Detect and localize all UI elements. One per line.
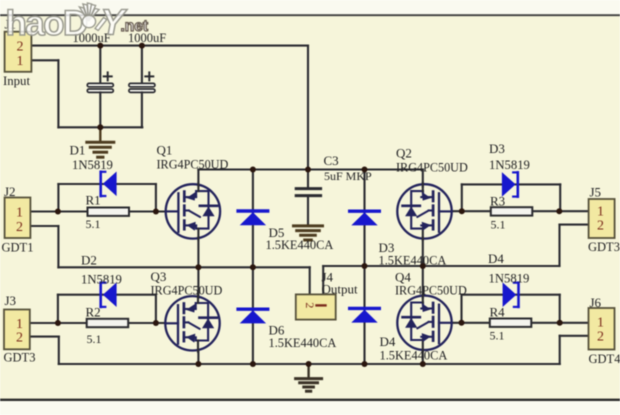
- diode D3 1N5819: [516, 172, 519, 196]
- junction D3-D4 TVS / right midpoint rail: [362, 263, 368, 269]
- junction Q4 emitter / ground rail: [420, 361, 426, 367]
- connector J3: [4, 310, 30, 350]
- svg-text:Q3: Q3: [151, 269, 167, 284]
- wire J2 pin 2 drop: [30, 225, 58, 227]
- ground (capacitor rail): [99, 127, 101, 141]
- junction J3 pin1 / D2 branch: [55, 320, 61, 326]
- svg-text:J5: J5: [590, 185, 602, 200]
- junction Q4 gate / D4 branch: [459, 320, 465, 326]
- svg-text:IRG4PC50UD: IRG4PC50UD: [157, 157, 229, 171]
- diode D6 1.5KE440CA: [238, 308, 268, 311]
- svg-text:1.5KE440CA: 1.5KE440CA: [379, 254, 447, 268]
- wire C3 stem: [307, 170, 309, 188]
- connector J6: [589, 308, 615, 350]
- wire Q2 collector: [422, 170, 424, 187]
- diode D5 1.5KE440CA: [238, 209, 268, 212]
- junction D4 TVS / ground rail: [362, 361, 368, 367]
- svg-text:GDT3: GDT3: [4, 350, 36, 364]
- svg-text:D1: D1: [70, 143, 86, 158]
- diode D4 TVS 1.5KE440CA: [350, 307, 380, 310]
- svg-text:1: 1: [17, 54, 24, 69]
- svg-text:2: 2: [303, 302, 317, 308]
- wire Q4 emitter: [422, 350, 424, 365]
- wire right midpoint rail: [323, 265, 559, 267]
- wire J6 pin 2 riser: [559, 336, 561, 364]
- junction D5 / collector rail: [250, 167, 256, 173]
- wire Q1 emitter / Q3 collector column: [197, 238, 199, 298]
- svg-text:1N5819: 1N5819: [489, 158, 530, 172]
- connector J5: [589, 199, 615, 238]
- svg-text:GDT4: GDT4: [589, 352, 620, 366]
- diode D4 1N5819: [517, 283, 520, 307]
- capacitor C1 1000uF: [99, 46, 101, 84]
- svg-text:GDT1: GDT1: [2, 240, 34, 254]
- svg-text:J3: J3: [5, 293, 17, 308]
- svg-text:IRG4PC50UD: IRG4PC50UD: [396, 160, 468, 174]
- junction R1 / D1 branch / Q1 gate: [153, 209, 159, 215]
- wire J4 left stub: [309, 267, 311, 294]
- svg-text:D4: D4: [488, 251, 504, 266]
- resistor R4: [490, 319, 532, 327]
- svg-text:1N5819: 1N5819: [489, 272, 530, 286]
- wire capacitor bottom rail: [58, 126, 142, 128]
- svg-text:R2: R2: [86, 304, 101, 319]
- junction J2 pin1 / D1 branch: [55, 209, 61, 215]
- wire bottom ground rail: [59, 363, 560, 365]
- diode D3 TVS 1.5KE440CA: [350, 209, 380, 212]
- capacitor C2 1000uF: [141, 46, 143, 84]
- svg-text:D3: D3: [489, 141, 505, 156]
- junction R4 / D4 branch / J6 pin1: [557, 320, 563, 326]
- svg-text:2: 2: [16, 220, 23, 235]
- wire Q2 gate to J5 pin 1: [452, 210, 589, 212]
- wire D5/D6 column: [252, 170, 254, 365]
- svg-text:1: 1: [597, 204, 604, 219]
- svg-text:C3: C3: [324, 153, 339, 168]
- svg-text:2: 2: [597, 218, 604, 233]
- transistor Q3 IRG4PC50UD: [165, 296, 219, 350]
- wire Q1 gate from J2 pin 1: [30, 210, 166, 212]
- svg-text:R1: R1: [86, 192, 101, 207]
- diode D2 1N5819: [99, 283, 102, 307]
- junction D6 / ground rail: [250, 361, 256, 367]
- wire J3 pin 2 drop: [30, 336, 59, 338]
- connector J4 Output: [296, 294, 336, 319]
- connector J1: [5, 32, 32, 72]
- wire D2 bypass branch: [57, 295, 59, 323]
- svg-text:J6: J6: [590, 295, 602, 310]
- junction D3 TVS / collector rail: [362, 167, 368, 173]
- svg-text:5uF MKP: 5uF MKP: [324, 169, 372, 183]
- svg-text:haoD: haoD: [6, 4, 87, 43]
- svg-text:1: 1: [16, 205, 23, 220]
- transistor Q1 IRG4PC50UD: [166, 184, 220, 238]
- junction C1 / cap return rail: [97, 124, 103, 130]
- svg-text:2: 2: [16, 330, 23, 345]
- capacitor C3 5uF MKP: [296, 187, 320, 190]
- svg-text:5.1: 5.1: [490, 329, 505, 343]
- wire D4 bypass branch: [460, 295, 462, 323]
- svg-text:Q1: Q1: [157, 143, 173, 158]
- wire left midpoint rail: [58, 266, 309, 268]
- top border line: [0, 14, 620, 16]
- resistor R1: [88, 208, 130, 216]
- wire +V rail from J1 pin 2: [31, 45, 308, 47]
- junction C1 / +V rail: [97, 43, 103, 49]
- connector J2: [5, 198, 31, 239]
- junction C2 / +V rail: [139, 43, 145, 49]
- wire Q4 gate to J6 pin 1: [452, 322, 589, 324]
- junction D5-D6 / left midpoint rail: [250, 264, 256, 270]
- bottom border line: [0, 399, 620, 401]
- wire J5 pin 2 riser: [558, 225, 560, 266]
- junction Q1-Q3 column / left midpoint rail: [195, 264, 201, 270]
- wire Q2 emitter / Q4 collector column: [422, 238, 424, 298]
- svg-text:5.1: 5.1: [491, 218, 506, 232]
- svg-text:GDT3: GDT3: [588, 240, 620, 254]
- svg-text:2: 2: [597, 329, 604, 344]
- svg-text:1N5819: 1N5819: [72, 158, 113, 172]
- wire D3/D4 TVS column: [363, 170, 365, 365]
- svg-text:D4: D4: [380, 334, 396, 349]
- junction Q2 gate / D3 branch: [459, 208, 465, 214]
- svg-text:Q4: Q4: [395, 269, 411, 284]
- svg-text:Output: Output: [322, 282, 359, 297]
- svg-text:1N5819: 1N5819: [81, 273, 122, 287]
- svg-text:1.5KE440CA: 1.5KE440CA: [266, 238, 334, 252]
- watermark haoDIY.net: [6, 2, 149, 43]
- svg-text:J2: J2: [4, 184, 16, 199]
- ground (main, bottom rail): [307, 364, 309, 377]
- ground (under C3): [294, 224, 323, 227]
- svg-text:R3: R3: [490, 193, 505, 208]
- wire D3 bypass branch: [461, 184, 463, 211]
- junction R3 / D3 branch / J5 pin1: [556, 208, 562, 214]
- junction ground symbol / ground rail: [306, 361, 312, 367]
- wire Q3 emitter: [197, 350, 199, 365]
- svg-text:IRG4PC50UD: IRG4PC50UD: [151, 283, 223, 297]
- svg-text:D2: D2: [81, 253, 97, 268]
- wire Q1 collector: [197, 170, 199, 186]
- wire +V drop to collector rail: [307, 46, 309, 170]
- junction Q2-Q4 column / right midpoint rail: [420, 263, 426, 269]
- wire Q3 gate from J3 pin 1: [30, 322, 166, 324]
- junction Q3 emitter / ground rail: [195, 361, 201, 367]
- wire J1 pin 1 to cap bottom rail: [31, 59, 58, 61]
- transistor Q4 IRG4PC50UD: [397, 296, 451, 350]
- junction R2 / D2 branch / Q3 gate: [153, 320, 159, 326]
- svg-text:.net: .net: [121, 18, 149, 35]
- resistor R2: [87, 319, 129, 327]
- svg-text:5.1: 5.1: [86, 217, 101, 231]
- svg-text:1.5KE440CA: 1.5KE440CA: [269, 336, 337, 350]
- svg-text:1.5KE440CA: 1.5KE440CA: [380, 348, 448, 362]
- resistor R3: [491, 207, 533, 215]
- svg-text:Q2: Q2: [396, 146, 412, 161]
- svg-text:IRG4PC50UD: IRG4PC50UD: [395, 283, 467, 297]
- wire D1 bypass branch: [57, 184, 59, 212]
- transistor Q2 IRG4PC50UD: [397, 184, 451, 238]
- svg-text:1: 1: [597, 315, 604, 330]
- wire collector rail: [198, 168, 423, 170]
- svg-text:5.1: 5.1: [87, 332, 102, 346]
- svg-text:Input: Input: [3, 74, 30, 88]
- wire J4 right stub: [322, 266, 324, 294]
- diode D1 1N5819: [99, 172, 102, 196]
- svg-text:R4: R4: [490, 304, 506, 319]
- junction +V drop / collector rail: [305, 167, 311, 173]
